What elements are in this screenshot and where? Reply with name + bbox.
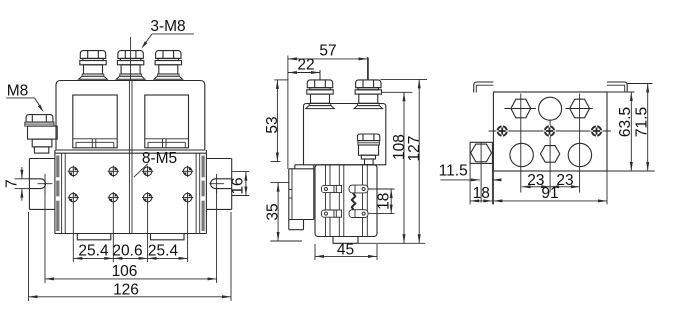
- circle bottom row R: [568, 143, 591, 166]
- auxiliary stud: [358, 134, 380, 165]
- hex stud top row R: [570, 99, 590, 118]
- svg-text:22: 22: [297, 56, 314, 73]
- side body lower ledge: [295, 164, 304, 166]
- svg-text:M8: M8: [7, 83, 29, 100]
- dimension 45: [315, 241, 377, 260]
- side terminal hex nut: [471, 144, 492, 162]
- screw M5 r1c1: [68, 166, 79, 177]
- terminal frame: [315, 165, 377, 237]
- window left: [73, 95, 117, 148]
- dimension 35: [265, 183, 303, 241]
- dimension 18 (terminals): [369, 189, 395, 214]
- frame ribs: [326, 165, 368, 237]
- pole divider center lines: [128, 81, 130, 234]
- screw M5 r1c3: [142, 166, 153, 177]
- svg-text:11.5: 11.5: [439, 163, 468, 180]
- dimension 63.5: [607, 92, 635, 171]
- mounting screw right: [591, 125, 603, 137]
- screw M5 r1c4: [182, 166, 193, 177]
- svg-text:91: 91: [541, 185, 558, 202]
- dimension 16: [230, 172, 250, 196]
- foot left: [77, 234, 111, 240]
- seal hatch left: [56, 156, 59, 178]
- dimension 11.5: [439, 163, 502, 182]
- svg-text:18: 18: [473, 185, 490, 202]
- dimension 57: [288, 43, 368, 169]
- window right: [145, 95, 189, 148]
- svg-text:25.4: 25.4: [78, 243, 109, 260]
- arc chute box: [289, 165, 314, 230]
- dimension 108: [358, 92, 425, 243]
- dimension 91: [493, 171, 607, 204]
- dimension 22: [288, 56, 320, 80]
- front stud left (M8): [79, 51, 108, 80]
- seal hatch right: [202, 156, 205, 178]
- screw M5 r2c1: [68, 192, 79, 203]
- hex stud top row L: [511, 99, 531, 118]
- mounting bracket right: [206, 159, 231, 210]
- side view stud 1: [306, 80, 335, 109]
- side view body: [304, 104, 386, 165]
- screw M5 r2c4: [182, 192, 193, 203]
- svg-text:16: 16: [230, 177, 247, 194]
- side view stud 2: [354, 80, 383, 109]
- svg-text:127: 127: [406, 136, 423, 162]
- label M8 leader: [6, 98, 43, 112]
- svg-text:3-M8: 3-M8: [150, 18, 185, 35]
- terminal row 2: [322, 210, 369, 218]
- front stud middle (M8): [116, 51, 145, 80]
- svg-text:63.5: 63.5: [617, 107, 634, 137]
- dimension 126: [29, 212, 232, 301]
- svg-text:35: 35: [265, 203, 282, 220]
- mounting screws centerline: [489, 130, 612, 132]
- label 3-M8 leader: [141, 34, 194, 49]
- front view centerline: [130, 37, 132, 81]
- dimension 23 23: [522, 172, 580, 189]
- svg-text:25.4: 25.4: [148, 243, 179, 260]
- svg-text:23: 23: [556, 172, 573, 189]
- dimension 127: [381, 79, 428, 243]
- side foot: [333, 237, 358, 244]
- circle bottom row L: [510, 143, 533, 166]
- flange left: [474, 82, 494, 93]
- top view body: [493, 92, 607, 171]
- hex stud top row R crosshair: [565, 108, 592, 110]
- svg-text:126: 126: [113, 281, 139, 298]
- coil jumper zigzag: [352, 193, 356, 210]
- mounting bracket left: [29, 159, 55, 210]
- foot right: [151, 234, 185, 240]
- flange right: [607, 82, 627, 93]
- upper body: [56, 81, 205, 151]
- screw M5 r1c2: [108, 166, 119, 177]
- side terminal centerline: [480, 142, 482, 202]
- circle top row middle: [539, 97, 562, 120]
- stud centerlines: [319, 70, 321, 80]
- hex stud top row L crosshair: [504, 108, 535, 110]
- screw M5 r2c3: [142, 192, 153, 203]
- svg-text:45: 45: [337, 241, 354, 258]
- mounting screw left: [496, 125, 508, 137]
- lower body: [55, 150, 207, 234]
- dimension 25.4 / 20.6 / 25.4: [73, 202, 187, 262]
- mounting screw middle: [544, 125, 556, 137]
- dimension 18 (bracket): [470, 163, 492, 204]
- pole centerline col3: [579, 94, 581, 193]
- label 8-M5 leader: [134, 164, 148, 177]
- dimension 71.5: [607, 84, 655, 172]
- dimension 106: [45, 189, 217, 283]
- svg-text:71.5: 71.5: [633, 107, 650, 137]
- dimension 53: [264, 80, 289, 162]
- svg-text:57: 57: [319, 43, 336, 60]
- svg-text:53: 53: [264, 116, 281, 133]
- front stud right (M8): [154, 51, 183, 80]
- svg-text:18: 18: [376, 193, 393, 210]
- pole centerline col2: [549, 120, 551, 193]
- M8 side terminal: [25, 115, 57, 153]
- terminal row 1: [322, 185, 369, 193]
- svg-text:7: 7: [4, 179, 21, 188]
- pole centerline col1: [520, 94, 522, 193]
- svg-text:8-M5: 8-M5: [142, 150, 177, 167]
- dimension 7: [4, 167, 30, 201]
- hex bottom row middle: [540, 146, 559, 163]
- side terminal square: [470, 142, 492, 163]
- svg-text:20.6: 20.6: [112, 243, 142, 260]
- screw M5 r2c2: [108, 192, 119, 203]
- svg-text:106: 106: [112, 263, 138, 280]
